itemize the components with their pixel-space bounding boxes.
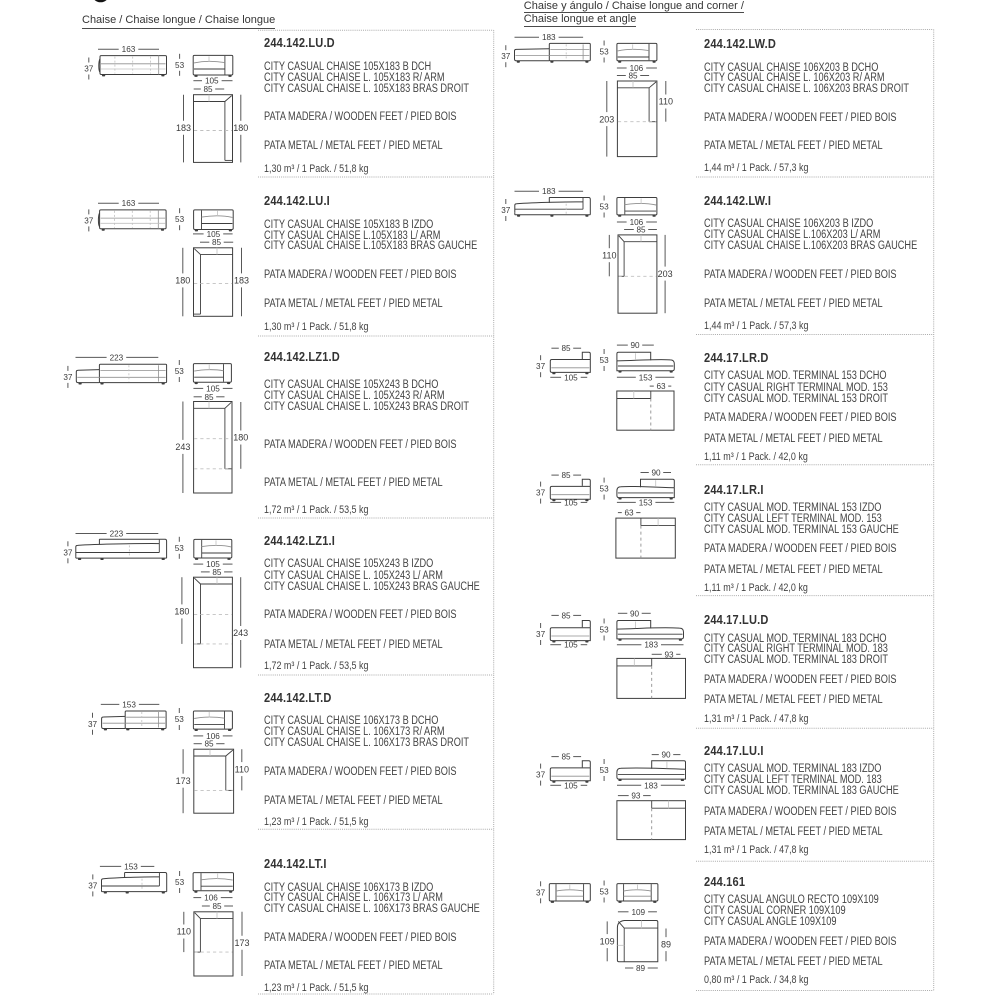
R5 dim 37 <box>540 623 542 628</box>
R1 dim 203 <box>606 81 608 112</box>
R1 dim 53 <box>603 41 605 46</box>
B4 dim 243 <box>240 577 242 626</box>
svg-text:183: 183 <box>234 276 249 286</box>
svg-text:85: 85 <box>212 568 222 577</box>
R1 dim 85 <box>617 75 626 77</box>
svg-text:203: 203 <box>599 114 614 124</box>
R5 terminal side view <box>617 621 651 630</box>
svg-text:85: 85 <box>204 393 214 402</box>
R2 dim 110 <box>608 235 610 248</box>
B2 dim 105 <box>193 233 204 235</box>
svg-text:53: 53 <box>175 878 185 887</box>
B3 chaise side view <box>193 364 231 383</box>
product 244.142.LW.I text block <box>704 193 771 208</box>
R3 dim 153 <box>617 376 636 378</box>
svg-text:85: 85 <box>212 238 222 247</box>
B3 dim 223 <box>76 356 107 358</box>
R1 chaise top view <box>617 81 657 157</box>
R6 dim 90 <box>652 754 659 756</box>
R7 corner side view <box>617 884 658 901</box>
product 244.17.LR.I text block <box>704 482 764 497</box>
svg-text:105: 105 <box>564 373 578 382</box>
R4 terminal top view <box>616 518 675 558</box>
B6 dim 173 <box>241 912 243 936</box>
svg-text:85: 85 <box>203 85 213 94</box>
svg-text:53: 53 <box>175 544 185 553</box>
svg-text:109: 109 <box>631 908 645 917</box>
R6 dim 37 <box>540 764 542 769</box>
B3 dim 85 <box>194 396 202 398</box>
R2 dim 203 <box>664 235 666 267</box>
svg-text:110: 110 <box>235 764 249 774</box>
svg-text:37: 37 <box>63 373 73 382</box>
svg-text:37: 37 <box>536 771 546 780</box>
B4 chaise side view <box>194 539 232 558</box>
R2 chaise front view <box>549 197 583 199</box>
B4 dim 180 <box>181 577 183 604</box>
svg-text:37: 37 <box>88 881 98 890</box>
product 244.142.LZ1.D text block <box>264 349 340 364</box>
svg-text:37: 37 <box>536 489 546 498</box>
R4 dim 37 <box>540 482 542 487</box>
svg-text:223: 223 <box>110 353 124 362</box>
svg-text:85: 85 <box>561 753 571 762</box>
B6 dim 37 <box>92 874 94 879</box>
svg-text:180: 180 <box>175 276 190 286</box>
svg-text:37: 37 <box>536 888 546 897</box>
B1 sofa side view <box>193 55 233 75</box>
R5 dim 90 <box>618 612 627 614</box>
R1 dim 37 <box>505 45 507 50</box>
svg-text:53: 53 <box>600 203 610 212</box>
svg-text:105: 105 <box>564 641 578 650</box>
R7 dim 89 bottom <box>625 967 633 969</box>
B3 chaise front view <box>76 370 99 383</box>
logo (partial circle at top edge) <box>92 0 108 2</box>
B6 dim 53 <box>179 871 181 876</box>
svg-text:37: 37 <box>501 206 511 215</box>
R1 chaise front view <box>515 49 550 61</box>
B4 dim 53 <box>178 537 180 542</box>
R5 dim 53 <box>603 619 605 624</box>
B6 dim 153 <box>100 865 121 867</box>
R3 dim 37 <box>540 355 542 360</box>
svg-text:90: 90 <box>651 469 661 478</box>
B3 dim 53 <box>178 360 180 365</box>
product 244.17.LU.D text block <box>704 612 769 627</box>
B5 chaise top view <box>194 749 234 813</box>
B4 dim 85 <box>201 571 210 573</box>
svg-text:105: 105 <box>564 498 578 507</box>
svg-text:85: 85 <box>212 902 222 911</box>
svg-text:183: 183 <box>542 187 556 196</box>
product 244.142.LU.I text block <box>264 193 330 208</box>
product 244.142.LT.D text block <box>264 690 332 705</box>
B3 dim 243 <box>182 402 184 440</box>
product 244.142.LZ1.I text block <box>264 533 335 548</box>
product 244.17.LR.D text block <box>704 350 769 365</box>
B4 dim 223 <box>76 533 107 535</box>
svg-text:183: 183 <box>644 781 658 790</box>
B3 chaise top view <box>194 402 232 494</box>
svg-text:203: 203 <box>658 269 673 279</box>
svg-text:223: 223 <box>110 530 124 539</box>
B4 dim 37 <box>67 541 69 546</box>
R3 dim 90 <box>617 344 628 346</box>
R4 dim 63 <box>618 512 622 514</box>
R2 dim 183 <box>515 190 540 192</box>
svg-text:85: 85 <box>628 72 638 81</box>
R3 dim 85 <box>551 347 558 349</box>
svg-text:93: 93 <box>631 792 641 801</box>
svg-text:110: 110 <box>177 927 191 937</box>
R4 terminal front view <box>582 479 590 486</box>
svg-text:105: 105 <box>564 781 578 790</box>
B1 dim 180 <box>240 95 242 121</box>
R2 chaise side view <box>617 198 657 215</box>
B1 dim 37 <box>88 58 90 63</box>
B2 dim 163 <box>98 202 119 204</box>
B2 dim 85 <box>200 241 209 243</box>
R4 terminal side view <box>641 479 675 488</box>
B4 chaise front view <box>99 538 159 540</box>
B5 chaise side view <box>193 711 232 729</box>
R5 dim 183 <box>617 644 642 646</box>
R3 terminal front view <box>582 352 590 359</box>
R2 dim 37 <box>505 199 507 204</box>
B3 dim 105 <box>193 387 203 389</box>
svg-text:183: 183 <box>542 33 556 42</box>
B1 dim 183 <box>183 95 185 121</box>
R4 dim 105 <box>550 501 561 503</box>
B5 dim 153 <box>101 703 120 705</box>
R1 dim 110 <box>665 81 667 95</box>
svg-text:110: 110 <box>602 250 616 260</box>
svg-text:63: 63 <box>624 509 634 518</box>
R1 dim 183 <box>515 36 540 38</box>
svg-text:53: 53 <box>175 367 185 376</box>
svg-text:153: 153 <box>639 373 653 382</box>
R5 terminal front view <box>582 621 590 628</box>
svg-text:53: 53 <box>175 61 185 70</box>
B5 chaise front view <box>102 716 126 728</box>
svg-text:53: 53 <box>600 356 610 365</box>
R3 dim 53 <box>603 349 605 354</box>
svg-text:180: 180 <box>174 607 189 617</box>
svg-text:180: 180 <box>233 123 248 133</box>
svg-text:85: 85 <box>561 611 571 620</box>
svg-text:85: 85 <box>561 471 571 480</box>
B6 chaise front view <box>125 872 160 874</box>
svg-text:153: 153 <box>124 862 138 871</box>
svg-text:37: 37 <box>84 65 94 74</box>
svg-text:90: 90 <box>630 341 640 350</box>
svg-text:63: 63 <box>656 382 666 391</box>
B1 dim 163 <box>98 48 119 50</box>
svg-text:53: 53 <box>600 48 610 57</box>
R1 chaise side view <box>617 43 657 60</box>
svg-text:109: 109 <box>600 936 615 946</box>
svg-text:53: 53 <box>600 888 610 897</box>
B4 dim 105 <box>193 563 203 565</box>
svg-text:37: 37 <box>536 630 546 639</box>
B3 dim 37 <box>67 366 69 371</box>
svg-text:53: 53 <box>600 766 610 775</box>
separators <box>258 29 494 31</box>
product 244.17.LU.I text block <box>704 743 764 758</box>
R2 dim 85 <box>624 229 634 231</box>
R7 dim 109 left <box>606 921 608 934</box>
B6 dim 106 <box>193 897 201 899</box>
right column header <box>524 0 744 13</box>
svg-text:53: 53 <box>175 215 185 224</box>
B2 sofa front view <box>100 210 167 229</box>
B6 chaise side view <box>193 873 233 891</box>
svg-text:89: 89 <box>636 964 646 973</box>
R6 dim 93 <box>618 795 629 797</box>
R3 dim 105 <box>550 376 561 378</box>
R7 corner top view <box>617 921 657 962</box>
R5 dim 105 <box>550 644 561 646</box>
svg-text:37: 37 <box>84 216 94 225</box>
svg-text:85: 85 <box>204 740 214 749</box>
R6 terminal top view <box>617 801 686 840</box>
R7 dim 53 <box>603 881 605 886</box>
product 244.142.LW.D text block <box>704 36 776 51</box>
svg-text:53: 53 <box>175 715 185 724</box>
svg-text:110: 110 <box>659 97 673 107</box>
R6 terminal front view <box>582 761 590 768</box>
R6 terminal side view <box>652 761 686 770</box>
R4 dim 85 <box>551 474 558 476</box>
svg-text:163: 163 <box>122 199 136 208</box>
B5 dim 106 <box>193 735 203 737</box>
svg-text:183: 183 <box>644 641 658 650</box>
R7 dim 89 right <box>665 929 667 938</box>
R3 dim 63 <box>650 385 654 387</box>
R2 dim 106 <box>617 221 627 223</box>
B6 chaise top view <box>194 912 233 976</box>
B2 dim 37 <box>88 209 90 214</box>
B2 dim 53 <box>179 208 181 213</box>
B6 dim 85 <box>202 905 210 907</box>
B5 dim 37 <box>92 713 94 718</box>
R7 dim 37 <box>540 881 542 886</box>
B2 sofa side view <box>194 210 234 230</box>
product 244.142.LT.I text block <box>264 856 327 871</box>
B5 dim 85 <box>194 743 202 745</box>
R7 dim 109 top <box>618 911 629 913</box>
B1 dim 85 <box>194 88 201 90</box>
R3 terminal side view <box>617 352 651 361</box>
R5 terminal top view <box>617 658 686 698</box>
R7 corner front view <box>549 884 590 901</box>
svg-text:53: 53 <box>600 485 610 494</box>
svg-text:183: 183 <box>176 123 191 133</box>
B1 dim 53 <box>179 54 181 59</box>
svg-text:153: 153 <box>639 498 653 507</box>
R5 dim 85 <box>551 614 558 616</box>
svg-text:173: 173 <box>234 938 249 948</box>
B6 dim 110 <box>183 912 185 925</box>
B2 chaise top view <box>194 248 233 316</box>
R6 dim 85 <box>551 756 558 758</box>
R6 dim 53 <box>603 759 605 764</box>
svg-text:163: 163 <box>122 45 136 54</box>
B5 dim 110 <box>241 749 243 762</box>
svg-text:243: 243 <box>233 628 248 638</box>
svg-text:89: 89 <box>661 939 671 949</box>
R3 terminal top view <box>617 391 674 430</box>
svg-text:173: 173 <box>176 776 191 786</box>
B5 dim 173 <box>182 749 184 774</box>
B5 dim 53 <box>178 708 180 713</box>
svg-text:85: 85 <box>636 226 646 235</box>
R2 dim 53 <box>603 196 605 201</box>
svg-text:243: 243 <box>175 442 190 452</box>
svg-text:37: 37 <box>88 720 98 729</box>
product 244.142.LU.D text block <box>264 35 335 50</box>
svg-text:180: 180 <box>233 433 248 443</box>
B3 dim 180 <box>240 402 242 431</box>
product 244.161 text block <box>704 874 745 889</box>
R6 dim 183 <box>617 784 641 786</box>
R2 chaise top view <box>618 235 657 313</box>
R4 dim 90 <box>641 472 649 474</box>
svg-text:37: 37 <box>536 362 546 371</box>
R6 dim 105 <box>550 784 561 786</box>
B4 chaise top view <box>194 577 233 668</box>
R1 dim 106 <box>617 67 627 69</box>
svg-text:37: 37 <box>501 52 511 61</box>
svg-text:37: 37 <box>63 548 73 557</box>
R5 dim 93 <box>652 653 662 655</box>
R4 dim 53 <box>603 478 605 483</box>
svg-text:153: 153 <box>122 700 136 709</box>
left column header <box>82 14 275 29</box>
svg-text:90: 90 <box>661 751 671 760</box>
B2 dim 183 <box>241 248 243 274</box>
svg-text:85: 85 <box>561 344 571 353</box>
B1 dim 105 <box>193 80 202 82</box>
svg-text:90: 90 <box>630 609 640 618</box>
B1 chaise top view <box>194 95 233 163</box>
B2 dim 180 <box>182 248 184 274</box>
B1 sofa front view <box>100 56 167 75</box>
R4 dim 153 <box>617 501 636 503</box>
svg-text:53: 53 <box>600 626 610 635</box>
